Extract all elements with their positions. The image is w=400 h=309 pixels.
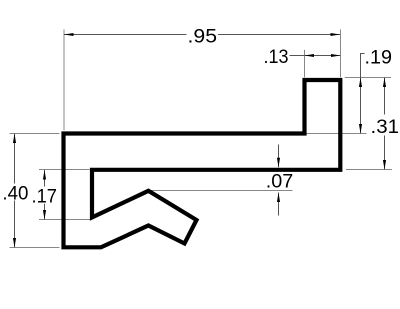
arrowhead .40 down [13,238,16,248]
dimension .17 line lower segment [44,204,46,220]
arrowhead .17 down [43,210,46,220]
extension line step right (y=169.5) [346,169,392,171]
svg-text:.13: .13 [264,47,289,68]
arrowhead .13 left [305,54,315,57]
dimension .07 upper tail [278,145,280,168]
arrowhead .31 down [383,160,386,170]
arrowhead .13 right [331,54,341,57]
arrowhead .19 down [359,124,362,134]
arrowhead .19 up [359,78,362,88]
extension line top surface right (y=133.5) [307,133,367,135]
dimension .31 line lower segment [384,136,386,170]
extension line .17 bottom (y=219.5) [39,219,90,221]
dimension .07 lower tail [278,193,280,216]
dimension .40 line lower segment [14,201,16,248]
dimension .19 leader tick [360,53,365,55]
extension line .40 top (y=133.5) [10,133,60,135]
arrowhead .31 up [383,78,386,88]
svg-text:.40: .40 [2,184,28,205]
dimension .31 line upper segment [384,78,386,115]
extension line left of .13 (x=304.5) [304,50,306,77]
arrowhead .07 down [277,158,280,168]
arrowhead .07 up [277,193,280,203]
svg-text:.07: .07 [266,172,294,193]
svg-text:.31: .31 [371,117,400,138]
profile outline of part cross-section [64,80,341,247]
arrowhead .40 up [13,134,16,144]
extension line claw apex (y=190.5) [152,190,293,192]
extension line .40 bottom (y=247.5) [10,247,60,249]
dimension .95 line left segment [64,34,187,36]
dimension .17 line upper segment [44,170,46,187]
arrowhead .95 left [64,33,74,36]
extension line left of .95 (x=64) [63,30,65,131]
svg-text:.19: .19 [365,48,393,69]
svg-text:.95: .95 [188,27,218,48]
dimension .40 line upper segment [14,134,16,184]
extension line tab top right (y=77.5) [345,77,391,79]
svg-text:.17: .17 [32,186,58,207]
dimension .95 line right segment [218,34,340,36]
arrowhead .95 right [331,33,341,36]
extension line right of .95 and .13 (x=340.5) [340,30,342,78]
extension line .17 top (y=169.5) [39,169,90,171]
arrowhead .17 up [43,170,46,180]
dimension .13 line [290,55,341,57]
dimension .19 line [360,54,362,134]
